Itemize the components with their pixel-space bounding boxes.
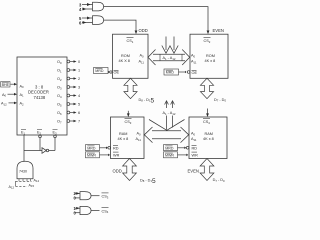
MRD box to U2 OE (164, 69, 187, 75)
decoder output O3 pin (57, 86, 80, 91)
arrowhead G2 input 5 (87, 17, 91, 20)
label RAM 4K x 8 (U5) (203, 132, 214, 141)
svg-text:DECODER: DECODER (28, 90, 49, 95)
enable pins E1 E2 E3 (21, 129, 58, 135)
label CS3 out (102, 193, 109, 199)
ROM U1 (odd) box (113, 34, 149, 78)
bus chevron left (148, 50, 156, 66)
svg-text:A15: A15 (29, 184, 35, 189)
svg-text:MRD: MRD (166, 71, 175, 75)
svg-text:A1 - A12: A1 - A12 (163, 56, 176, 61)
svg-text:6: 6 (78, 111, 80, 115)
svg-text:A14: A14 (34, 178, 40, 183)
decoder output O4 pin (57, 94, 80, 99)
drop arrowhead 2 (170, 46, 178, 54)
decoder output O0 pin (57, 60, 80, 65)
svg-text:MWR: MWR (87, 154, 96, 158)
wire inverter out (49, 150, 55, 152)
bubble E3 (54, 135, 57, 138)
svg-text:1: 1 (78, 69, 80, 73)
svg-text:4K X 8: 4K X 8 (119, 59, 130, 63)
drop top tick 1 (165, 101, 169, 105)
svg-text:CS3: CS3 (102, 195, 109, 200)
svg-text:A0: A0 (2, 93, 7, 98)
wire G2 output to ODD (104, 20, 136, 31)
decoder output O7 pin (57, 120, 80, 125)
arrowhead G1 input 3 (87, 3, 91, 6)
svg-text:WR: WR (192, 153, 199, 157)
wire G1 output to EVEN (104, 7, 208, 31)
svg-text:CS4: CS4 (203, 120, 210, 125)
pin OE (U1) (110, 70, 120, 74)
pin RD (U5) (186, 145, 197, 150)
label CS3 (U4) (125, 118, 132, 124)
gate G3 (CS3) (75, 192, 100, 200)
bus chevron right (RAM) (181, 127, 189, 143)
svg-text:BHE: BHE (2, 83, 10, 87)
data arrow U4 (123, 159, 137, 181)
wire E2 down (39, 138, 41, 151)
svg-text:A12: A12 (9, 185, 15, 190)
svg-text:RAM: RAM (205, 132, 213, 136)
decoder output O6 pin (57, 111, 80, 116)
input A0 (2, 93, 24, 98)
7430 input dashed row 1 (16, 180, 32, 182)
bubble E2 (39, 135, 42, 138)
svg-text:A11: A11 (139, 60, 145, 65)
svg-text:0: 0 (78, 60, 80, 64)
gate G1 body (93, 2, 104, 11)
RAM U5 (even) box (189, 117, 227, 159)
data arrow U2 (200, 78, 213, 98)
svg-text:ODD: ODD (139, 28, 148, 33)
svg-text:O6: O6 (57, 111, 62, 116)
input BHE (1, 82, 24, 90)
svg-text:O3: O3 (57, 86, 62, 91)
svg-text:A11: A11 (191, 60, 197, 65)
gate G2 body (93, 16, 104, 25)
label A1-A12 (RAM bus) (161, 108, 183, 116)
bus drop wire 1 (165, 37, 167, 51)
NAND 7430 (17, 161, 33, 179)
7430 input ticks (16, 179, 32, 187)
svg-text:ODD: ODD (113, 168, 122, 173)
svg-text:3: 3 (78, 86, 80, 90)
label A1-A12 (ROM bus) box ticks (159, 54, 161, 61)
svg-text:A12: A12 (1, 102, 7, 107)
data arrow U5 (200, 159, 214, 181)
label ROM 4K x 8 (U1) (119, 54, 130, 63)
wire E1 net to inverter (24, 150, 42, 152)
svg-text:A0: A0 (191, 132, 196, 137)
svg-text:O5: O5 (57, 103, 62, 108)
label RAM 4K x 8 (U4) (118, 132, 129, 141)
svg-text:O1: O1 (57, 69, 62, 74)
MRD box to U5 RD (164, 145, 187, 151)
drop top tick 2 (171, 101, 175, 105)
label CS1 (127, 37, 134, 44)
address bus ROM row (A1-A12) (148, 37, 190, 66)
svg-text:7: 7 (78, 120, 80, 124)
pin RD (U4) (108, 145, 119, 150)
svg-text:3 : 8: 3 : 8 (35, 84, 44, 89)
label ROM 4K x 8 (U2) (205, 54, 216, 63)
svg-text:RD: RD (192, 147, 198, 151)
wire E1 to 7430 (23, 135, 25, 162)
svg-text:A11: A11 (136, 137, 142, 142)
drop arrowhead 1 (162, 46, 170, 54)
svg-text:6: 6 (79, 20, 82, 25)
CS3 stub into U4 (127, 111, 129, 114)
svg-text:74138: 74138 (34, 95, 46, 100)
svg-text:D7 - D0: D7 - D0 (214, 98, 226, 103)
svg-text:A11: A11 (191, 137, 197, 142)
svg-text:O2: O2 (57, 77, 62, 82)
svg-text:O7: O7 (57, 120, 62, 125)
svg-text:D7 - D0: D7 - D0 (213, 178, 225, 183)
label CS4 out (102, 208, 109, 214)
svg-text:RAM: RAM (119, 132, 127, 136)
decoder output O5 pin (57, 103, 80, 108)
svg-text:CS4: CS4 (102, 209, 109, 214)
svg-text:OE: OE (192, 71, 198, 75)
svg-text:EVEN: EVEN (188, 169, 199, 174)
svg-text:MWR: MWR (165, 154, 174, 158)
label CS4 (U5) (203, 118, 210, 124)
arrowhead G1 input 4 (83, 8, 87, 11)
svg-text:O4: O4 (57, 94, 62, 99)
label 3:8 DECODER 74138 (28, 84, 49, 100)
svg-text:4: 4 (78, 94, 80, 98)
decoder output O2 pin (57, 77, 80, 82)
label CS2 (204, 37, 211, 44)
svg-text:4: 4 (79, 7, 82, 12)
svg-text:5: 5 (78, 103, 80, 107)
pin WR (U4) (113, 152, 120, 157)
svg-text:MRD: MRD (87, 146, 96, 150)
bus drop wire 2 (RAM) (172, 101, 174, 128)
input A12 (1, 102, 24, 107)
svg-text:7430: 7430 (19, 170, 27, 174)
svg-text:CS1: CS1 (127, 39, 134, 44)
svg-text:EVEN: EVEN (213, 28, 224, 33)
svg-text:A0: A0 (140, 54, 145, 59)
wire E3 down (54, 138, 56, 151)
arrowhead into ROM2 top (EVEN net) (207, 30, 210, 34)
svg-text:ROM: ROM (206, 54, 215, 58)
bus drop wire 2 (173, 37, 175, 51)
svg-text:4K x 8: 4K x 8 (118, 137, 129, 141)
bus chevron right (182, 50, 190, 66)
decoder 74138 box (17, 57, 67, 135)
gate G4 (CS4) (75, 206, 100, 214)
arrowhead G3 input (76, 192, 79, 195)
svg-text:OE: OE (114, 71, 120, 75)
data arrow U1 (124, 78, 137, 98)
arrowhead G4 input (76, 207, 79, 210)
bus chevron left (RAM) (144, 127, 152, 143)
svg-text:D8 - D15: D8 - D15 (139, 97, 155, 104)
address bus RAM row (A1-A12) (144, 101, 188, 143)
svg-text:2: 2 (78, 77, 80, 81)
svg-text:O0: O0 (57, 60, 62, 65)
pin OE (U2) (187, 70, 197, 74)
svg-text:4K x 8: 4K x 8 (205, 59, 216, 63)
svg-text:A0: A0 (137, 132, 142, 137)
bus drop wire 1 (RAM) (166, 101, 168, 130)
svg-text:ROM: ROM (121, 54, 130, 58)
7430 input dashed row 2 (16, 185, 28, 187)
svg-text:D8 - D15: D8 - D15 (140, 178, 156, 185)
gate G2 inputs wires (82, 17, 93, 19)
ROM U2 (even) box (190, 34, 228, 78)
svg-text:CS2: CS2 (204, 39, 211, 44)
svg-text:4K x 8: 4K x 8 (203, 137, 214, 141)
svg-text:A2: A2 (20, 102, 25, 107)
svg-text:MRD: MRD (165, 146, 174, 150)
svg-text:RD: RD (113, 147, 119, 151)
svg-text:MRD: MRD (95, 69, 104, 73)
MRD box to U1 OE (94, 68, 110, 74)
svg-text:A0: A0 (20, 84, 25, 89)
drop funnel arrowhead (RAM) (149, 120, 185, 131)
pin WR (U5) (192, 152, 199, 157)
MWR box to U4 WR (86, 152, 111, 158)
svg-text:WR: WR (113, 153, 120, 157)
RAM U4 (odd) box (111, 117, 145, 159)
inverter U3 (42, 148, 46, 154)
MRD box to U4 RD (86, 145, 108, 151)
svg-text:CS3: CS3 (125, 120, 132, 125)
svg-text:A1: A1 (20, 93, 25, 98)
MWR box to U5 WR (164, 152, 189, 158)
decoder output O1 pin (57, 69, 80, 74)
gate G1 inputs wires (82, 4, 93, 6)
svg-text:A0: A0 (191, 54, 196, 59)
CS4 stub into U5 (207, 109, 209, 114)
arrowhead into ROM1 top (ODD net) (135, 30, 138, 34)
arrowhead G2 input 6 (83, 21, 87, 24)
